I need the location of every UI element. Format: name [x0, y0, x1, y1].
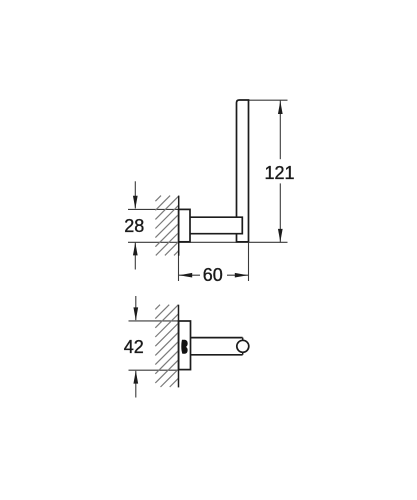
arrow 28 bottom: [133, 242, 138, 255]
extension line bottom of side view (shared 28/121 bottom reference): [128, 241, 288, 243]
dimension line 121 (lower segment): [279, 183, 281, 242]
arrow 121 top: [278, 101, 283, 114]
dimension line 28 (lower segment): [134, 243, 136, 270]
rod end circle (plan view): [237, 340, 249, 352]
vertical bar of holder (side view): [237, 100, 249, 242]
arrow 42 bottom: [133, 371, 138, 384]
wall hatching (plan view): [155, 305, 160, 310]
extension line right of 60 dimension: [248, 243, 250, 281]
dimension line 42 (lower segment): [135, 371, 137, 398]
dimension line 60 (left segment): [179, 274, 201, 276]
wall hatching (side view): [155, 196, 161, 202]
dimension line 42 (upper segment): [135, 296, 137, 320]
extension line bottom of plate (42 bottom reference, plan view): [129, 369, 179, 371]
svg-text:28: 28: [124, 216, 144, 236]
extension line left of 60 dimension: [178, 250, 180, 281]
dimension line 60 (right segment): [227, 274, 249, 276]
arrow 60 left: [179, 273, 192, 278]
dimension line 28 (upper segment): [134, 181, 136, 208]
wall face line (plan view): [178, 305, 180, 388]
svg-text:60: 60: [203, 265, 223, 285]
svg-text:121: 121: [264, 163, 294, 183]
svg-text:42: 42: [124, 337, 144, 357]
extension line top of plate (42 top reference, plan view): [129, 320, 179, 322]
arrow 28 top: [133, 196, 138, 209]
dimension line 121 (upper segment): [279, 100, 281, 159]
wall mounting plate (plan view): [179, 321, 191, 370]
GROHE logo embossing on plate edge: [181, 340, 187, 354]
arrow 42 top: [133, 307, 138, 320]
arrow 60 right: [235, 273, 248, 278]
extension line top of plate (28 top reference): [128, 208, 179, 210]
arrow 121 bottom: [278, 229, 283, 242]
holder arm (side view): [190, 217, 242, 234]
rod fill (plan view): [190, 339, 242, 354]
wall face line (side view): [178, 196, 180, 256]
wall mounting plate (side view): [179, 209, 190, 241]
holder rod (plan view): [190, 338, 243, 355]
extension line top of bar (121 top reference): [249, 99, 288, 101]
